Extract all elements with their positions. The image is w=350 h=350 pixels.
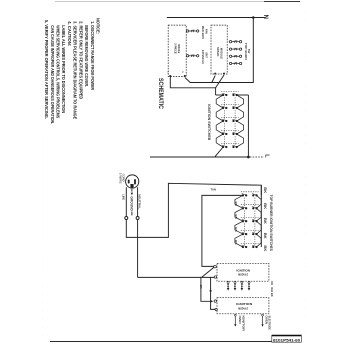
svg-text:40W: 40W [205, 29, 209, 34]
switch S4 body [216, 134, 223, 147]
svg-text:M: M [207, 138, 209, 140]
switch S3 contacts [222, 120, 224, 122]
terminal L1 on spark module [214, 73, 216, 75]
svg-text:2. REFER ONLY TO FEATURES EQUI: 2. REFER ONLY TO FEATURES EQUIPPED [78, 21, 83, 100]
svg-text:BR: BR [199, 285, 203, 289]
wire line lead [126, 183, 261, 237]
svg-text:MED BRN: MED BRN [201, 26, 205, 39]
electrode lead at 241.9 [241, 281, 243, 288]
switch SW2 contacts [242, 207, 244, 209]
wire N bus [167, 17, 265, 19]
svg-text:N: N [262, 15, 268, 19]
svg-text:WH: WH [270, 287, 274, 292]
svg-text:NOTICE:: NOTICE: [96, 18, 101, 34]
perforation dots left [42, 40, 44, 340]
wire L stub dashed [250, 156, 264, 158]
spark module box (wiring) [217, 263, 269, 281]
svg-text:1. DISCONNECT RANGE FROM POWER: 1. DISCONNECT RANGE FROM POWER [90, 21, 95, 91]
wire neutral run to spark module [138, 276, 215, 278]
wire spark module L1 diagonal [216, 75, 224, 88]
switch SW3 body [235, 221, 243, 234]
power plug P1 [126, 175, 139, 188]
svg-text:5. VERIFY PROPER OPERATION AFT: 5. VERIFY PROPER OPERATION AFTER SERVICI… [44, 20, 49, 119]
switch S2 body [216, 108, 223, 121]
connector circle tan at module [214, 265, 217, 268]
svg-text:MODULE: MODULE [219, 48, 223, 59]
svg-text:BK: BK [270, 293, 274, 297]
node L junction [247, 156, 250, 159]
connector on line lead [125, 217, 128, 220]
switch SW2 body [235, 208, 243, 221]
connector J6 [229, 62, 231, 64]
connector J1 clock-to-module [187, 30, 189, 32]
switch S4 contacts [222, 133, 224, 135]
wire bank right vertical [247, 95, 249, 157]
svg-text:SPARK: SPARK [216, 47, 220, 57]
spark module box (schematic) [211, 25, 227, 74]
svg-text:GROUND: GROUND [129, 196, 133, 211]
wire bank top right [237, 94, 249, 96]
svg-text:2 PIECE: 2 PIECE [174, 43, 178, 54]
oven electrode lead [262, 314, 264, 316]
wire TAN from switch bank [202, 195, 243, 266]
electrode lead at 228.1 [227, 281, 229, 288]
svg-text:BK: BK [263, 203, 267, 210]
svg-text:IGNITION: IGNITION [236, 302, 252, 306]
svg-text:IGNITION: IGNITION [236, 269, 250, 273]
svg-text:SCHEMATIC: SCHEMATIC [157, 78, 163, 110]
svg-text:MODULE: MODULE [238, 306, 248, 310]
connector J2 clock-to-module [187, 55, 189, 57]
svg-text:IGNITOR: IGNITOR [241, 316, 245, 332]
connector circle neutral at module [214, 276, 216, 278]
svg-text:MODULE: MODULE [238, 273, 248, 277]
svg-text:CAN CAUSE IMPROPER AND DANGERO: CAN CAUSE IMPROPER AND DANGEROUS OPERATI… [50, 25, 55, 124]
svg-text:TOP BURNER IGNITION SWITCHES: TOP BURNER IGNITION SWITCHES [269, 195, 273, 252]
svg-text:LINE: LINE [121, 194, 125, 200]
svg-text:SW: SW [247, 49, 251, 54]
perforation dots right [305, 12, 307, 336]
svg-text:TAN: TAN [211, 187, 216, 191]
svg-text:4. CAUTION:: 4. CAUTION: [67, 21, 72, 46]
clock module box [168, 25, 186, 76]
wire lower bank right chain [260, 185, 262, 247]
terminal N on clock module [184, 75, 186, 77]
oven module output lead [234, 314, 236, 316]
svg-text:BK: BK [263, 187, 267, 194]
connector J3 [229, 41, 231, 43]
svg-text:BEFORE REMOVING WIRE COVER.: BEFORE REMOVING WIRE COVER. [84, 25, 89, 87]
wire bank entry top left [216, 94, 224, 96]
switch SW5 contacts [242, 246, 244, 248]
wire ground lead [131, 189, 133, 192]
svg-text:BK: BK [263, 218, 267, 225]
svg-text:8101P541-60: 8101P541-60 [273, 337, 301, 342]
wire bank bottom diagonal [215, 147, 223, 157]
switch SW1 body [235, 195, 243, 208]
connector J4 [229, 48, 231, 50]
electrode lead at 249.0 [248, 281, 250, 288]
terminal L1 on clock module [169, 75, 171, 77]
wire N drop [185, 18, 253, 83]
page top edge line [55, 1, 264, 3]
part number box [272, 335, 302, 342]
svg-text:OR: OR [270, 281, 274, 285]
switch S1 body [216, 95, 223, 108]
wire N branch to spark module [212, 76, 215, 83]
switch S1 contacts [222, 94, 224, 96]
wire BR drop to oven module [201, 277, 212, 301]
svg-text:NEUTRAL: NEUTRAL [137, 194, 141, 209]
svg-text:WHEN SERVICING CONTROLS, WIRIN: WHEN SERVICING CONTROLS, WIRING PROBLEMS [55, 25, 60, 118]
svg-text:BK: BK [263, 245, 267, 252]
oven module box [217, 298, 269, 314]
switch SW1 contacts [242, 194, 244, 196]
switch SW4 contacts [242, 233, 244, 235]
switch SW4 body [235, 234, 243, 247]
svg-text:MODULE: MODULE [177, 44, 181, 53]
wire diagonal neutral-module [202, 267, 214, 277]
svg-text:IGNITION SWITCHES: IGNITION SWITCHES [207, 104, 211, 141]
wire neutral lead [137, 187, 139, 277]
svg-text:3. SERVICER PLEASE RETURN DIAG: 3. SERVICER PLEASE RETURN DIAGRAM TO RAN… [73, 21, 78, 119]
svg-text:LABEL ALL WIRES PRIOR TO DISCO: LABEL ALL WIRES PRIOR TO DISCONNECTION [61, 25, 66, 113]
connector J5 [229, 55, 231, 57]
wire L bus [150, 156, 248, 158]
switch S3 body [216, 121, 223, 134]
wire L1 bus from clock [170, 77, 215, 96]
terminal N on spark module [223, 73, 225, 75]
svg-text:CORD: CORD [122, 174, 126, 182]
svg-text:BK: BK [263, 233, 267, 240]
switch SW3 contacts [242, 220, 244, 222]
svg-text:ELECTRODE: ELECTRODE [268, 316, 272, 330]
node N junction [252, 16, 255, 19]
switch S5 contacts [222, 146, 224, 148]
wire second drop to oven module [211, 277, 215, 309]
switch S2 contacts [222, 107, 224, 109]
electrode lead at 235.0 [234, 281, 236, 288]
page bottom border [50, 341, 300, 343]
svg-text:BRKT: BRKT [205, 53, 209, 59]
svg-text:L: L [264, 154, 270, 158]
svg-text:EXTEND GO: EXTEND GO [201, 50, 205, 65]
connector on neutral lead [136, 217, 139, 220]
